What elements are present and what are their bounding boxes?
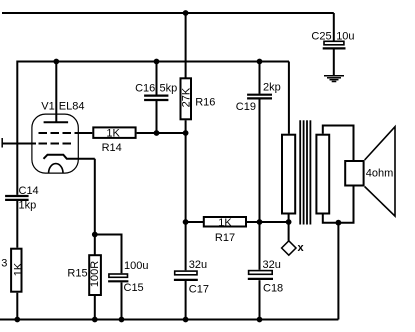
junction node primary bottom / X xyxy=(286,219,292,225)
junction node plate/B+ xyxy=(53,59,59,65)
junction node C17/ground rail xyxy=(183,317,189,323)
wire R15 top lead xyxy=(94,235,96,256)
junction node C18/ground rail xyxy=(257,317,263,323)
wire left rail to C14 xyxy=(16,61,18,195)
capacitor C19 plates xyxy=(247,95,272,99)
svg-text:32u: 32u xyxy=(263,259,281,271)
wire R16 bottom to R17 node xyxy=(185,120,187,222)
wire plate lead V1 xyxy=(55,62,57,122)
junction node C15/ground rail xyxy=(119,317,125,323)
svg-text:R17: R17 xyxy=(215,232,235,244)
resistor R16 xyxy=(181,78,192,119)
junction node R15/ground rail xyxy=(92,317,98,323)
svg-text:C16: C16 xyxy=(135,83,155,95)
svg-text:100u: 100u xyxy=(124,260,148,272)
capacitor C25 plates xyxy=(323,41,346,48)
wire screen grid dashed xyxy=(39,132,78,134)
wire R17 left xyxy=(186,221,204,223)
svg-text:C18: C18 xyxy=(263,283,283,295)
wire R13 to ground rail xyxy=(16,293,18,320)
svg-text:C19: C19 xyxy=(236,101,256,113)
wire B+ horizontal rail y=61.5 xyxy=(17,61,289,63)
junction node C16/B+ xyxy=(154,59,160,65)
svg-text:5kp: 5kp xyxy=(160,83,178,95)
tube V1 cathode xyxy=(44,155,95,159)
wire R16 top lead xyxy=(185,13,187,78)
resistor R13 xyxy=(11,249,21,292)
wire C19 top lead xyxy=(259,62,261,94)
wire C16 bottom lead xyxy=(156,101,158,133)
wire R17 right xyxy=(247,221,289,223)
transformer secondary winding xyxy=(316,135,329,214)
svg-text:V1: V1 xyxy=(41,101,54,113)
svg-text:4ohm: 4ohm xyxy=(366,167,394,179)
svg-text:1K: 1K xyxy=(106,127,120,139)
junction node C19/B+ xyxy=(257,59,263,65)
wire C17 top lead xyxy=(185,222,187,270)
svg-text:R16: R16 xyxy=(195,97,215,109)
wire C25 bottom lead xyxy=(333,50,335,76)
wire secondary bottom to speaker xyxy=(323,187,354,223)
wire transformer primary bottom to X tap xyxy=(288,215,290,241)
svg-text:27K: 27K xyxy=(180,87,192,107)
junction node R13/ground rail xyxy=(14,317,20,323)
capacitor C17 plates xyxy=(174,271,198,280)
wire secondary top to speaker xyxy=(323,126,354,161)
junction node secondary / speaker / ground xyxy=(336,220,342,226)
svg-text:R14: R14 xyxy=(102,142,122,154)
svg-text:C14: C14 xyxy=(19,185,39,197)
svg-text:R15: R15 xyxy=(67,268,87,280)
resistor R14 xyxy=(93,127,135,137)
wire cathode out and down xyxy=(94,159,96,235)
svg-text:32u: 32u xyxy=(189,259,207,271)
tube V1 anode plate xyxy=(44,121,69,123)
svg-text:3: 3 xyxy=(1,258,7,270)
junction node C16/R14 xyxy=(154,130,160,136)
junction node R17 left xyxy=(183,219,189,225)
speaker cone xyxy=(365,127,395,216)
tube V1 EL84 envelope xyxy=(32,114,78,173)
wire C19 bottom lead xyxy=(259,99,261,222)
resistor R17 xyxy=(204,217,246,227)
wire C18 top lead xyxy=(259,222,261,270)
svg-text:C25: C25 xyxy=(311,31,331,43)
svg-text:C17: C17 xyxy=(189,284,209,296)
svg-text:1kp: 1kp xyxy=(19,200,37,212)
wire bottom ground rail xyxy=(0,319,338,321)
svg-text:2kp: 2kp xyxy=(263,82,281,94)
transformer core xyxy=(300,120,310,224)
junction node R16/top rail xyxy=(183,10,189,16)
wire ground riser right xyxy=(337,223,339,320)
input terminal pin xyxy=(1,138,3,148)
wire C17 bottom lead xyxy=(185,281,187,320)
junction node cathode/R15/C15 xyxy=(92,232,98,238)
svg-text:100R: 100R xyxy=(89,261,101,287)
wire C18 bottom lead xyxy=(259,280,261,319)
capacitor C18 plates xyxy=(248,271,273,279)
resistor R15 xyxy=(89,255,101,295)
ground symbol C25 xyxy=(324,76,344,82)
wire C16 top lead xyxy=(156,62,158,95)
capacitor C14 plates xyxy=(5,196,29,200)
wire C15 bottom lead xyxy=(121,283,123,320)
svg-text:1K: 1K xyxy=(218,217,232,229)
wire transformer primary top lead xyxy=(288,62,290,134)
junction node R17 right / C18 xyxy=(257,219,263,225)
feedback tap diamond X xyxy=(282,241,296,255)
tube V1 heater arc xyxy=(49,164,63,173)
wire control grid dashed xyxy=(39,143,72,145)
svg-text:10u: 10u xyxy=(336,31,354,43)
svg-text:C15: C15 xyxy=(124,282,144,294)
wire C25 top lead xyxy=(333,13,335,41)
capacitor C16 plates xyxy=(144,96,168,100)
wire R15 bottom lead xyxy=(94,295,96,320)
svg-text:1K: 1K xyxy=(13,262,25,276)
wire screen grid to R14 xyxy=(77,132,93,134)
svg-text:x: x xyxy=(298,242,305,254)
speaker box xyxy=(345,161,363,186)
wire cathode node to C15 xyxy=(95,235,122,274)
transformer primary winding xyxy=(282,135,295,214)
svg-text:EL84: EL84 xyxy=(59,101,85,113)
junction node R16/R14 xyxy=(183,130,189,136)
wire top supply rail xyxy=(2,12,334,14)
wire R14 output xyxy=(137,132,186,134)
capacitor C15 plates xyxy=(108,274,128,281)
wire input to grid xyxy=(2,143,36,145)
wire C14 to R13 xyxy=(16,201,18,248)
